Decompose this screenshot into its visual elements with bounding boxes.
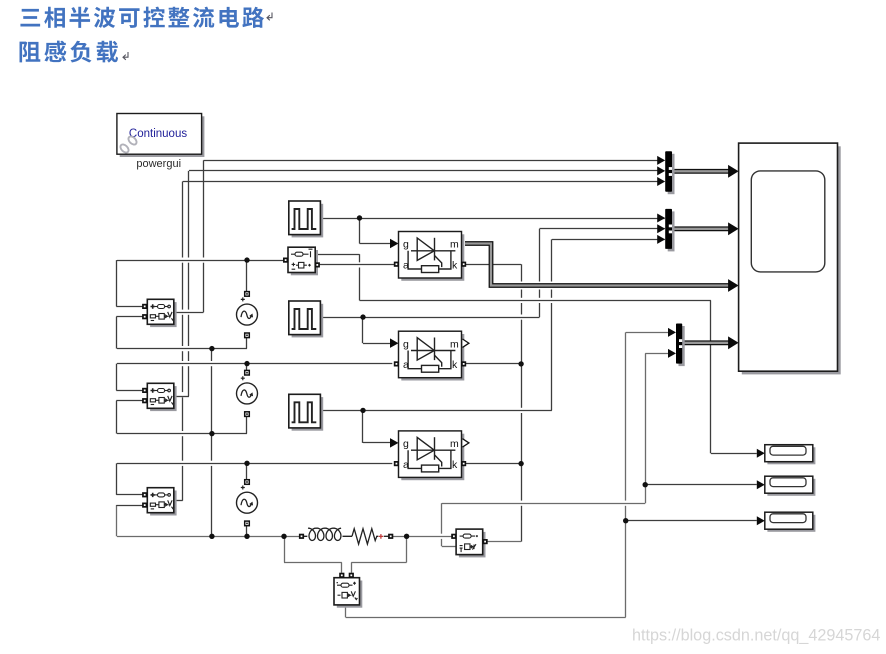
svg-text:g: g [403,338,409,350]
svg-text:Continuous: Continuous [129,128,187,140]
svg-text:k: k [452,260,458,272]
svg-text:powergui: powergui [136,158,181,170]
svg-text:m: m [450,239,459,251]
svg-text:m: m [450,338,459,350]
svg-text:k: k [452,359,458,371]
svg-text:g: g [403,438,409,450]
svg-text:g: g [403,239,409,251]
svg-text:k: k [452,459,458,471]
svg-text:m: m [450,438,459,450]
svg-text:https://blog.csdn.net/qq_42945: https://blog.csdn.net/qq_42945764 [632,627,880,645]
